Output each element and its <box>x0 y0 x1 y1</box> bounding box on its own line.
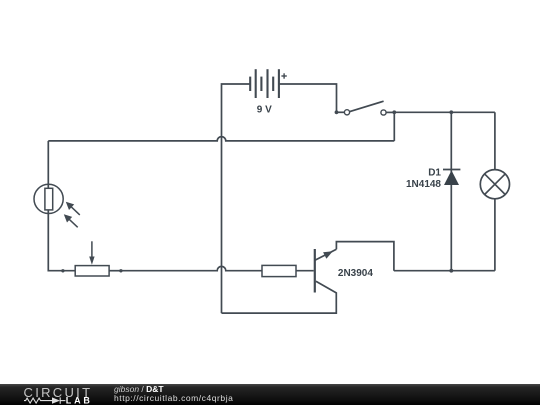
wire top rail to lamp branch <box>394 111 495 113</box>
node switch output <box>392 110 396 114</box>
transistor collector diagonal and return wire to battery negative <box>222 281 337 313</box>
wire switch throw to node <box>386 111 394 113</box>
lamp L1 circle <box>480 170 509 199</box>
wire emitter to bottom rail <box>336 242 394 271</box>
wire diode branch vertical <box>450 112 452 270</box>
lamp X diagonal 2 <box>485 174 506 195</box>
photoresistor circle <box>34 184 63 213</box>
wire bottom rail right <box>394 270 495 272</box>
pot terminal dot right <box>119 269 122 272</box>
battery V1 9V <box>250 69 279 98</box>
switch throw circle <box>381 110 386 115</box>
node diode top junction <box>449 110 453 114</box>
switch SW1 pole circle <box>344 110 349 115</box>
wire node to switch pole <box>337 111 345 113</box>
wire switch output down to base rail <box>393 112 395 141</box>
svg-text:9 V: 9 V <box>257 105 272 116</box>
battery plus sign <box>281 73 286 78</box>
photoresistor body rect <box>45 188 53 210</box>
CircuitLab logo <box>0 384 100 405</box>
resistor R body <box>262 265 296 276</box>
wire pot right terminal <box>109 270 121 272</box>
wire battery negative rail: left plate to corner, down left long vertical to bottom return <box>222 84 251 313</box>
wire left branch down into photoresistor <box>47 141 49 188</box>
transistor Q1 2N3904 bar <box>314 249 316 293</box>
svg-text:D1: D1 <box>428 167 441 178</box>
wire pot to resistor with hop over battery vertical <box>121 266 262 270</box>
svg-text:2N3904: 2N3904 <box>338 268 373 279</box>
photoresistor light arrow 1 <box>66 202 80 215</box>
wire lamp branch bottom <box>494 199 496 271</box>
transistor emitter diagonal <box>315 249 337 260</box>
photoresistor light arrow 2 <box>64 214 78 227</box>
potentiometer wiper arrow <box>89 241 94 264</box>
wire battery positive to switch <box>279 84 337 112</box>
wire lamp branch top <box>494 112 496 169</box>
svg-text:1N4148: 1N4148 <box>406 179 441 190</box>
diode D1 triangle <box>444 170 459 185</box>
node switch input <box>335 110 339 114</box>
potentiometer body <box>75 266 109 276</box>
wire base rail with hop over battery vertical <box>48 137 394 141</box>
wire resistor to transistor base <box>296 270 314 272</box>
switch lever <box>350 101 384 111</box>
lamp X diagonal 1 <box>485 174 506 195</box>
diode D1 cathode bar <box>443 169 460 171</box>
node diode bottom junction <box>449 269 453 273</box>
transistor emitter arrowhead <box>323 251 333 258</box>
pot terminal dot left <box>61 269 64 272</box>
footer bar <box>0 384 540 405</box>
svg-text:LAB: LAB <box>66 396 93 405</box>
wire photoresistor bottom to bottom-left rail <box>48 210 75 271</box>
